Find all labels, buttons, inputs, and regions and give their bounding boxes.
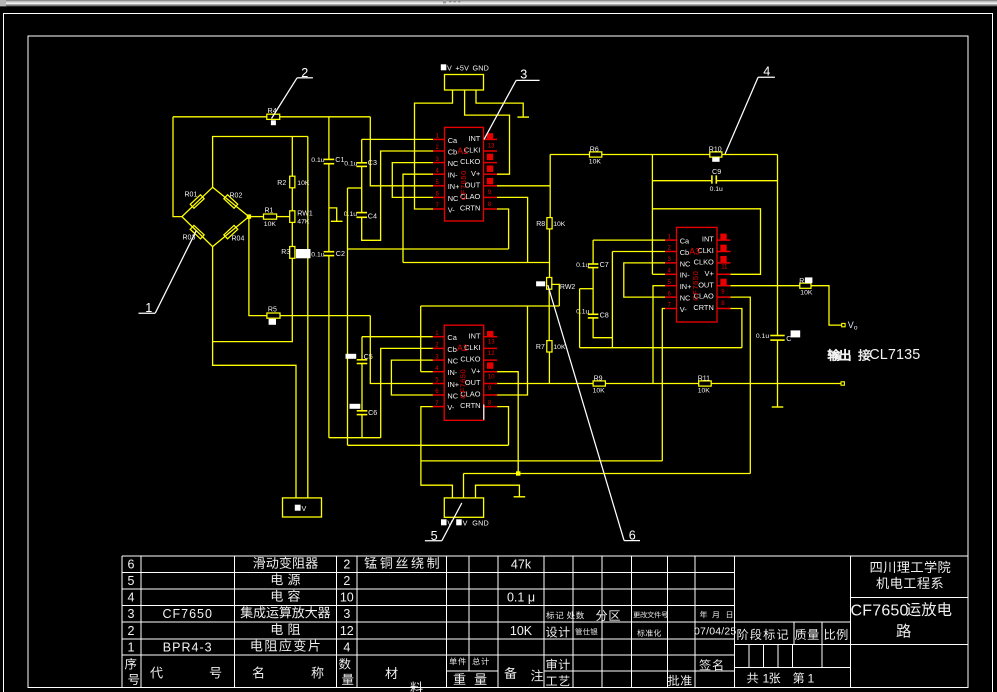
svg-text:0.1u: 0.1u <box>756 333 769 340</box>
svg-text:IN+: IN+ <box>448 182 460 191</box>
svg-text:IN-: IN- <box>448 171 458 180</box>
svg-text:0.1u: 0.1u <box>576 308 589 315</box>
svg-text:0.1u: 0.1u <box>576 262 589 269</box>
svg-text:CRTN: CRTN <box>460 204 480 213</box>
svg-text:10: 10 <box>488 374 495 380</box>
svg-text:NC: NC <box>448 159 459 168</box>
svg-text:2: 2 <box>343 558 350 572</box>
svg-text:CL7135: CL7135 <box>869 347 920 363</box>
svg-text:NC: NC <box>680 294 691 303</box>
svg-text:INT: INT <box>702 235 714 244</box>
svg-text:V-: V- <box>447 403 455 412</box>
svg-text:R2: R2 <box>277 180 286 187</box>
svg-text:47k: 47k <box>511 558 532 572</box>
svg-text:BPR4-3: BPR4-3 <box>163 640 213 654</box>
svg-text:Cb: Cb <box>448 147 457 156</box>
svg-text:Cb: Cb <box>447 345 456 354</box>
svg-text:13: 13 <box>488 144 495 150</box>
svg-text:10K: 10K <box>553 344 566 351</box>
svg-text:R6: R6 <box>590 146 599 153</box>
svg-text:CLKO: CLKO <box>694 258 714 267</box>
svg-text:10: 10 <box>340 591 354 605</box>
svg-text:V+: V+ <box>705 269 714 278</box>
svg-text:07/04/25: 07/04/25 <box>694 626 736 638</box>
svg-text:0.1u: 0.1u <box>344 160 357 167</box>
svg-text:V-: V- <box>448 205 456 214</box>
svg-text:2: 2 <box>343 574 350 588</box>
svg-text:47K: 47K <box>297 219 310 226</box>
svg-text:CRTN: CRTN <box>460 401 480 410</box>
svg-text:10K: 10K <box>698 387 711 394</box>
svg-text:C9: C9 <box>712 167 721 176</box>
svg-text:10K: 10K <box>593 387 606 394</box>
svg-text:GND: GND <box>473 64 490 73</box>
svg-text:C6: C6 <box>368 408 377 417</box>
svg-text:V-: V- <box>680 305 688 314</box>
svg-text:R01: R01 <box>185 192 198 199</box>
svg-text:GND: GND <box>472 519 489 528</box>
svg-text:CLKO: CLKO <box>460 355 480 364</box>
svg-text:IN+: IN+ <box>447 380 459 389</box>
svg-text:12: 12 <box>340 624 354 638</box>
svg-text:3: 3 <box>128 607 135 621</box>
svg-text:RW1: RW1 <box>297 211 313 218</box>
svg-text:Ca: Ca <box>448 136 458 145</box>
svg-text:Ca: Ca <box>680 237 690 246</box>
svg-text:0.1u: 0.1u <box>344 211 357 218</box>
svg-text:R: R <box>799 278 804 285</box>
svg-text:CF7650: CF7650 <box>851 603 909 620</box>
svg-text:10K: 10K <box>264 221 277 228</box>
svg-text:A2: A2 <box>457 343 468 353</box>
svg-text:CF7650: CF7650 <box>459 170 468 200</box>
svg-text:R7: R7 <box>536 344 545 351</box>
svg-text:OUT: OUT <box>698 280 714 289</box>
svg-text:CLKO: CLKO <box>460 157 480 166</box>
svg-text:V: V <box>302 504 307 513</box>
svg-text:10K: 10K <box>553 221 566 228</box>
svg-text:1: 1 <box>763 672 770 686</box>
svg-text:INT: INT <box>469 331 481 340</box>
svg-text:Ca: Ca <box>447 333 457 342</box>
svg-text:R4: R4 <box>268 106 277 115</box>
svg-text:2: 2 <box>128 624 135 638</box>
svg-text:V+: V+ <box>471 366 480 375</box>
svg-text:13: 13 <box>488 340 495 346</box>
svg-text:C4: C4 <box>368 211 377 220</box>
svg-text:0.1u: 0.1u <box>710 186 723 193</box>
svg-text:1: 1 <box>128 640 135 654</box>
svg-text:10K: 10K <box>510 624 533 638</box>
svg-text:CF7650: CF7650 <box>162 607 212 621</box>
svg-text:R3: R3 <box>281 249 290 256</box>
svg-text:R02: R02 <box>230 193 243 200</box>
svg-text:0.1u: 0.1u <box>311 251 324 258</box>
svg-text:4: 4 <box>763 64 770 78</box>
svg-text:10K: 10K <box>589 159 602 166</box>
svg-text:3: 3 <box>343 607 350 621</box>
svg-text:V+: V+ <box>471 169 480 178</box>
svg-text:R04: R04 <box>232 236 245 243</box>
svg-text:A3: A3 <box>689 246 700 256</box>
svg-text:R10: R10 <box>709 146 722 153</box>
svg-text:4: 4 <box>128 591 135 605</box>
svg-text:R8: R8 <box>536 221 545 228</box>
svg-text:10K: 10K <box>800 289 813 296</box>
svg-text:R1: R1 <box>265 208 274 215</box>
svg-text:NC: NC <box>680 259 691 268</box>
svg-text:NC: NC <box>447 357 458 366</box>
svg-text:C5: C5 <box>364 352 373 361</box>
svg-text:R9: R9 <box>594 375 603 382</box>
svg-text:A1: A1 <box>457 146 468 156</box>
svg-text:NC: NC <box>448 194 459 203</box>
svg-text:INT: INT <box>468 134 480 143</box>
svg-text:0.1u: 0.1u <box>311 157 324 164</box>
svg-text:o: o <box>854 325 858 332</box>
svg-text:1: 1 <box>808 672 815 686</box>
svg-text:IN-: IN- <box>680 271 690 280</box>
svg-text:10K: 10K <box>297 180 310 187</box>
svg-text:CF7650: CF7650 <box>459 369 468 399</box>
svg-text:C3: C3 <box>368 158 377 167</box>
svg-text:+5V: +5V <box>456 64 470 73</box>
svg-text:RW2: RW2 <box>560 284 576 291</box>
svg-text:4: 4 <box>343 640 350 654</box>
svg-text:CRTN: CRTN <box>693 303 713 312</box>
svg-text:C7: C7 <box>600 260 609 269</box>
svg-text:V: V <box>447 64 452 73</box>
svg-text:R11: R11 <box>698 375 710 382</box>
svg-text:5: 5 <box>128 574 135 588</box>
svg-text:Cb: Cb <box>680 248 689 257</box>
svg-text:12: 12 <box>488 351 495 357</box>
svg-text:C8: C8 <box>600 310 609 319</box>
svg-text:3: 3 <box>520 68 527 82</box>
svg-text:V: V <box>463 519 468 528</box>
svg-text:IN-: IN- <box>447 368 457 377</box>
svg-text:IN+: IN+ <box>680 282 692 291</box>
svg-text:C2: C2 <box>336 249 345 258</box>
svg-text:C1: C1 <box>335 155 344 164</box>
svg-text:0.1 μ: 0.1 μ <box>507 591 535 605</box>
svg-text:NC: NC <box>447 391 458 400</box>
svg-text:R5: R5 <box>268 307 277 314</box>
svg-text:6: 6 <box>128 558 135 572</box>
svg-text:11: 11 <box>721 264 728 270</box>
svg-text:CF7650: CF7650 <box>691 271 700 301</box>
